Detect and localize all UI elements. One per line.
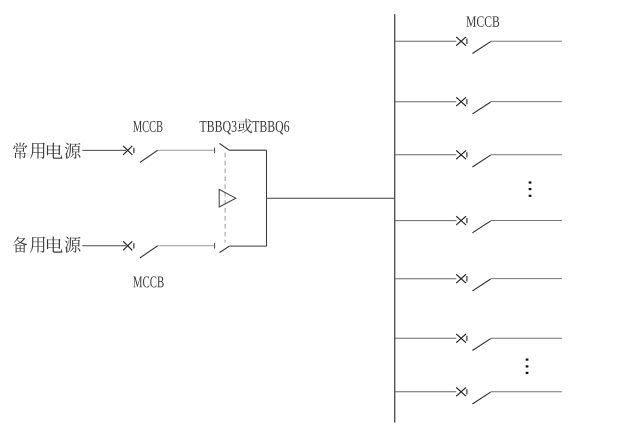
wire busbar to feeder-5 breaker (395, 278, 456, 280)
wire feeder-6 outgoing (491, 337, 562, 339)
label 备 (reserve-source text char 1) (13, 237, 27, 253)
wire feeder-4 outgoing (491, 220, 562, 222)
breaker QF1 fixed-contact tick (133, 148, 135, 153)
feeder-3 breaker contact X (456, 150, 466, 159)
ATS U1 top frame line (229, 149, 267, 151)
label 常 (normal-source text char 1) (13, 143, 27, 159)
ATS U1 top blade (closed to normal source) (220, 143, 229, 150)
label 源 (normal-source text char 4) (65, 143, 81, 159)
label 或 (or) (238, 119, 253, 134)
wire busbar to feeder-2 breaker (395, 101, 456, 103)
wire ATS output to busbar (267, 197, 395, 199)
value label MCCB (feeder breakers) (466, 16, 499, 27)
feeder-7 breaker switch blade (472, 392, 490, 404)
feeder-5 breaker contact X (456, 274, 466, 283)
wire feeder-5 outgoing (491, 278, 562, 280)
ellipsis dots (more feeders, group 2) (526, 359, 529, 375)
wire feeder-2 outgoing (491, 101, 562, 103)
busbar (distribution bus) (394, 14, 396, 423)
label 用 (normal-source text char 2) (30, 143, 45, 159)
breaker QF2 switch blade (140, 246, 158, 258)
wire feeder-3 outgoing (491, 154, 562, 156)
feeder-1 breaker contact X (456, 37, 466, 46)
feeder-6 breaker contact X (456, 334, 466, 343)
breaker QF2 contact X (123, 241, 132, 250)
feeder-5 breaker fixed-contact tick (466, 276, 468, 281)
value label TBBQ3 (ATS type, part 1) (200, 121, 237, 135)
wire busbar to feeder-3 breaker (395, 154, 456, 156)
feeder-1 breaker fixed-contact tick (466, 39, 468, 44)
feeder-1 breaker switch blade (472, 42, 490, 54)
wire busbar to feeder-6 breaker (395, 337, 456, 339)
value label MCCB (breaker QF2) (133, 276, 164, 287)
feeder-4 breaker fixed-contact tick (466, 218, 468, 223)
ATS U1 bottom blade (open from reserve source) (220, 246, 230, 252)
ATS U1 mechanical-link dashed line (224, 153, 226, 243)
feeder-3 breaker switch blade (472, 155, 490, 167)
feeder-2 breaker switch blade (472, 102, 490, 114)
feeder-7 breaker fixed-contact tick (466, 389, 468, 394)
ATS U1 input-1 contact tick (214, 148, 216, 154)
feeder-6 breaker fixed-contact tick (466, 336, 468, 341)
feeder-5 breaker switch blade (472, 279, 490, 291)
wire feeder-7 outgoing (491, 391, 562, 393)
wire QF1 to ATS input 1 (158, 149, 214, 151)
feeder-7 breaker contact X (456, 387, 466, 396)
feeder-6 breaker switch blade (472, 339, 490, 351)
breaker QF1 switch blade (140, 150, 158, 162)
feeder-4 breaker switch blade (472, 221, 490, 233)
wire busbar to feeder-4 breaker (395, 220, 456, 222)
label 用 (reserve-source text char 2) (30, 237, 45, 253)
wire busbar to feeder-1 breaker (395, 40, 456, 42)
label 电 (reserve-source text char 3) (47, 237, 63, 253)
ATS U1 input-2 contact tick (214, 243, 216, 249)
value label TBBQ6 (ATS type, part 2) (252, 121, 289, 135)
feeder-2 breaker contact X (456, 97, 466, 106)
ellipsis dots (more feeders, group 1) (529, 181, 532, 197)
feeder-4 breaker contact X (456, 216, 466, 225)
breaker QF2 fixed-contact tick (133, 243, 135, 248)
wire feeder-1 outgoing (491, 40, 562, 42)
ATS U1 actuator triangle symbol (219, 189, 236, 207)
breaker QF1 contact X (123, 146, 132, 155)
label 电 (normal-source text char 3) (47, 143, 63, 159)
feeder-2 breaker fixed-contact tick (466, 99, 468, 104)
label 源 (reserve-source text char 4) (65, 236, 81, 252)
wire 备用电源 to breaker QF2 (82, 245, 126, 247)
wire busbar to feeder-7 breaker (395, 391, 456, 393)
ATS U1 bottom frame line (229, 245, 266, 247)
wire QF2 to ATS input 2 (158, 245, 214, 247)
ATS U1 right frame line (output bar) (266, 150, 268, 246)
value label MCCB (breaker QF1) (133, 121, 162, 132)
wire 常用电源 to breaker QF1 (82, 149, 126, 151)
feeder-3 breaker fixed-contact tick (466, 152, 468, 157)
